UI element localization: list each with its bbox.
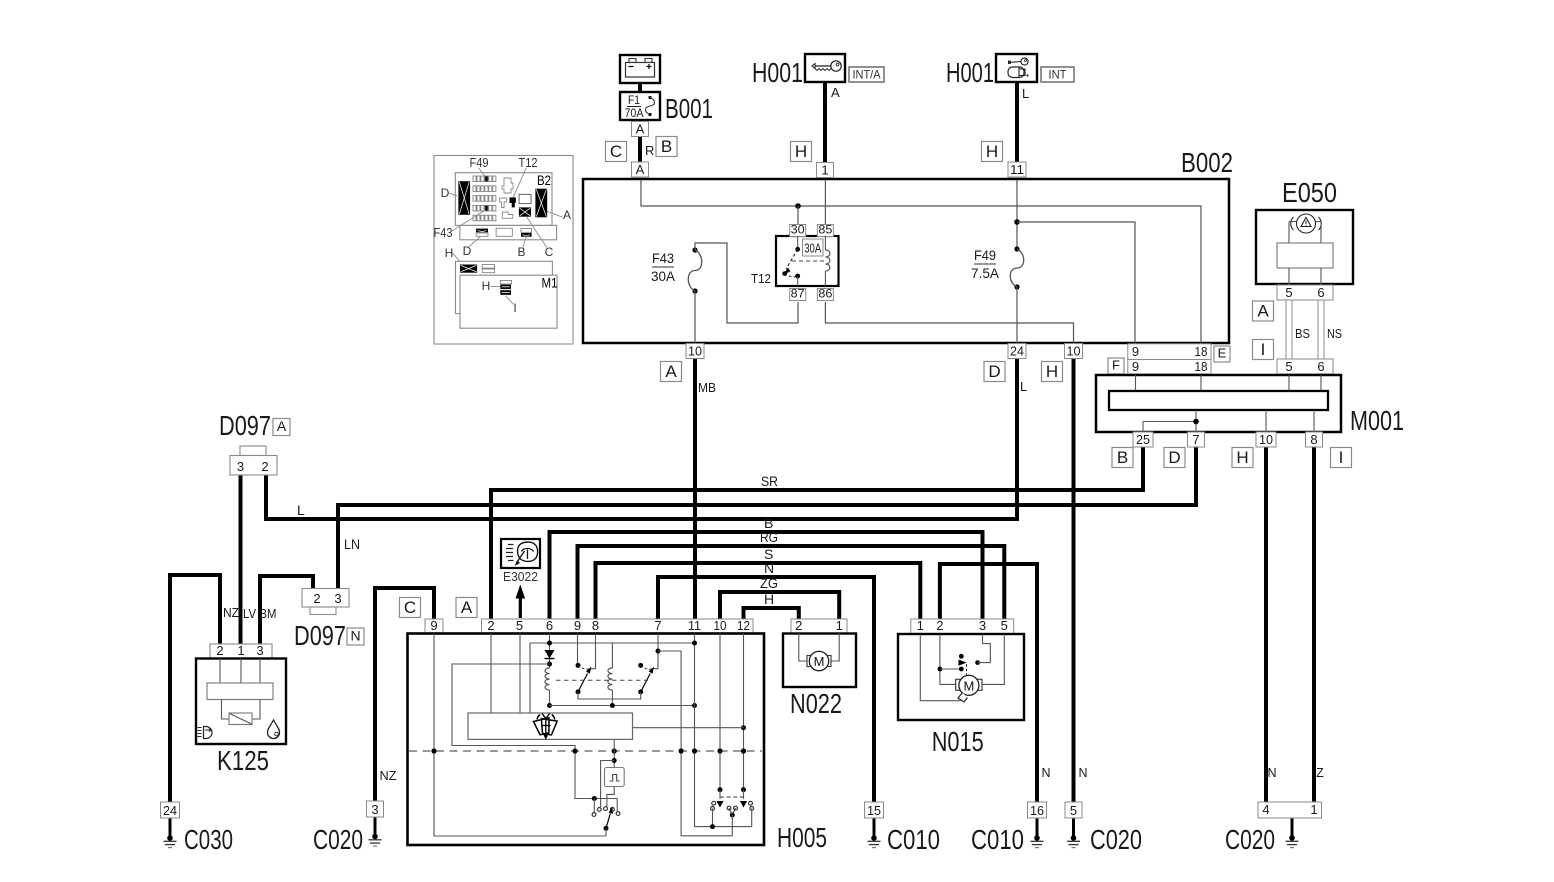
label box A <box>1253 301 1274 321</box>
svg-text:N015: N015 <box>932 726 984 757</box>
svg-text:7: 7 <box>654 618 661 633</box>
svg-text:2: 2 <box>313 591 320 606</box>
svg-text:B001: B001 <box>665 93 713 124</box>
svg-text:86: 86 <box>818 286 832 300</box>
hazard switch E050 <box>1256 210 1353 285</box>
svg-text:A: A <box>636 162 645 177</box>
wire S, H005 pin 8 to N015 pin 1 <box>596 563 921 620</box>
svg-text:85: 85 <box>818 222 832 236</box>
pin 16 of C010 <box>1028 802 1047 818</box>
svg-text:A: A <box>277 418 287 434</box>
svg-text:6: 6 <box>1317 285 1324 300</box>
wire L, B002 pin 24 to D097/A pin 2 <box>266 358 1017 519</box>
svg-text:1: 1 <box>836 618 843 633</box>
svg-text:N022: N022 <box>790 688 842 719</box>
wire B002 pin 11 to fuse F49 <box>1016 180 1018 249</box>
svg-text:F43: F43 <box>652 250 674 266</box>
svg-text:A: A <box>461 598 473 617</box>
svg-text:1: 1 <box>1310 802 1317 817</box>
wire NZ, C020 pin 3 to H005 pin 9 <box>375 588 434 803</box>
wire R, B001 pin A to B002 pin A <box>638 135 642 163</box>
wire MB, B002 pin 10 to H005 pin 11 <box>693 358 697 620</box>
svg-text:A: A <box>1257 302 1269 321</box>
pins 9/18 connector row to M001 <box>1128 359 1211 374</box>
svg-text:H: H <box>986 142 998 161</box>
svg-text:LV: LV <box>243 607 257 621</box>
svg-text:B2: B2 <box>537 173 551 188</box>
svg-text:H001: H001 <box>752 57 803 88</box>
pin 10 of M001 <box>1256 432 1276 447</box>
svg-text:M: M <box>814 654 825 669</box>
svg-text:D097: D097 <box>219 410 271 441</box>
svg-text:H001: H001 <box>946 57 994 88</box>
wire F49 to B002 pin 24 <box>1016 287 1018 344</box>
ground C030 <box>164 835 177 847</box>
svg-text:F49: F49 <box>974 247 996 263</box>
wire relay T12 pin 86 to B002 pin 10 right <box>825 302 1073 344</box>
pin 10 of B002 <box>686 343 704 358</box>
rear wiper motor N015 <box>898 634 1024 720</box>
svg-text:L: L <box>1022 86 1029 101</box>
wire F43 to relay T12 pin 87 <box>695 243 798 323</box>
svg-text:H: H <box>764 591 774 607</box>
svg-text:25: 25 <box>1136 432 1150 447</box>
svg-text:A: A <box>831 85 840 100</box>
svg-text:C: C <box>610 142 622 161</box>
icon headlamp levelling <box>198 727 213 739</box>
wire N, H005 pin 7 to C010 pin 15 <box>658 577 874 803</box>
svg-text:18: 18 <box>1195 344 1208 359</box>
svg-text:5: 5 <box>1285 285 1292 300</box>
pins 9/18 of B002 <box>1128 344 1211 360</box>
svg-text:B: B <box>517 245 525 259</box>
svg-text:C020: C020 <box>1090 824 1142 855</box>
svg-text:2: 2 <box>936 618 943 633</box>
svg-text:L: L <box>297 502 305 518</box>
svg-text:C020: C020 <box>1225 824 1275 855</box>
svg-text:1: 1 <box>237 643 244 658</box>
fuse F49 7.5A <box>1010 246 1024 289</box>
svg-text:30: 30 <box>791 222 805 236</box>
svg-text:K125: K125 <box>217 745 269 776</box>
wire stub to ground C030 <box>169 817 172 838</box>
svg-text:18: 18 <box>1195 359 1208 374</box>
svg-text:M1: M1 <box>542 276 558 291</box>
pin 5 of C020 <box>1065 802 1082 818</box>
pin row of H005: 2 5 6 9 8 7 11 10 12 <box>482 618 754 634</box>
arrow from H005 pin 5 to E3022 <box>516 585 526 619</box>
svg-text:T12: T12 <box>519 156 538 170</box>
wire stub to ground C010 <box>1036 817 1039 838</box>
svg-text:C020: C020 <box>313 824 363 855</box>
svg-text:H: H <box>795 142 807 161</box>
svg-text:C: C <box>404 598 416 617</box>
svg-text:B: B <box>661 137 672 156</box>
node junction F49 branch <box>1014 219 1020 225</box>
ground C020 <box>369 834 382 846</box>
svg-text:A: A <box>665 362 677 381</box>
svg-text:N: N <box>764 560 774 576</box>
wire A, H001 to B002 pin 1 <box>823 82 827 164</box>
svg-text:8: 8 <box>592 618 599 633</box>
svg-text:9: 9 <box>1132 359 1139 374</box>
pin 3 of C020 <box>367 801 384 817</box>
label box B <box>1112 448 1133 468</box>
svg-text:10: 10 <box>688 343 702 358</box>
svg-text:2: 2 <box>795 618 802 633</box>
wire N, M001 pin 10 to C020 pin 4 <box>1264 446 1268 802</box>
wire N, N015 pin 2 to C010 pin 16 <box>940 564 1037 803</box>
svg-text:6: 6 <box>1317 359 1324 374</box>
svg-text:10: 10 <box>1259 432 1273 447</box>
wire to relay T12 pin 30 <box>797 206 799 226</box>
svg-text:3: 3 <box>256 643 263 658</box>
svg-text:D097: D097 <box>294 620 346 651</box>
svg-text:3: 3 <box>237 459 244 474</box>
ground C020 <box>1286 835 1299 847</box>
label box F <box>1108 358 1124 375</box>
svg-text:24: 24 <box>1010 343 1024 358</box>
svg-text:4: 4 <box>1262 802 1269 817</box>
svg-text:11: 11 <box>688 618 701 633</box>
wire B002 pin 1 to relay T12 pin 85 <box>824 180 826 226</box>
svg-text:H: H <box>1046 362 1058 381</box>
svg-text:N: N <box>1078 766 1087 780</box>
fusebox B002 outline <box>583 179 1229 343</box>
label box E <box>1214 346 1230 363</box>
pins 4/1 of C020 connector <box>1258 802 1322 818</box>
svg-text:N: N <box>1267 766 1276 780</box>
wire B, H005 pin 6 to N015 pin 3 <box>550 532 983 620</box>
wire stub to ground C020 <box>1072 817 1075 838</box>
label box B <box>656 137 677 157</box>
label box H <box>982 142 1003 162</box>
svg-text:M: M <box>963 678 974 693</box>
wire H, H005 pin 12 to N022 pin 2 <box>744 608 799 620</box>
wire BS, E050 pin 5 to M001 pin 5 (twin-line) <box>1286 300 1292 359</box>
svg-text:3: 3 <box>979 618 986 633</box>
ignition switch H001 key symbol <box>805 54 845 82</box>
label box INT/A <box>849 67 884 82</box>
svg-text:9: 9 <box>1132 344 1139 359</box>
svg-text:NZ: NZ <box>380 769 397 783</box>
svg-text:H: H <box>1236 448 1248 467</box>
ignition switch H001 with key-in-lock symbol <box>996 54 1037 82</box>
svg-text:15: 15 <box>867 803 881 818</box>
icon windscreen wipers <box>533 714 557 740</box>
fuse box B001 with fuse F1 70A <box>620 92 660 120</box>
svg-text:5: 5 <box>1070 803 1077 818</box>
svg-text:12: 12 <box>737 618 750 633</box>
svg-text:D: D <box>441 186 450 200</box>
wire NS, E050 pin 6 to M001 pin 6 (twin-line) <box>1318 300 1324 359</box>
wire L, H001 to B002 pin 11 <box>1015 82 1019 164</box>
wiper switch unit H005 <box>408 634 765 846</box>
icon/component E3022 windscreen washer <box>501 539 540 568</box>
svg-text:L: L <box>1020 379 1027 394</box>
node junction A-line / relay 30 <box>795 203 801 209</box>
svg-text:6: 6 <box>546 618 553 633</box>
svg-text:16: 16 <box>1030 803 1044 818</box>
wire stub to ground C020 <box>374 817 377 836</box>
control unit K125 <box>196 659 286 745</box>
svg-text:ZG: ZG <box>760 575 778 591</box>
svg-text:9: 9 <box>574 618 581 633</box>
label box I <box>1331 448 1352 468</box>
label box A <box>661 362 682 382</box>
battery <box>620 55 660 83</box>
svg-text:5: 5 <box>1285 359 1292 374</box>
svg-text:MB: MB <box>698 380 716 395</box>
label box D <box>984 362 1005 382</box>
label box I <box>1253 340 1274 360</box>
svg-text:2: 2 <box>216 643 223 658</box>
svg-text:8: 8 <box>1310 432 1317 447</box>
svg-text:F: F <box>1112 358 1120 373</box>
svg-text:E3022: E3022 <box>503 570 538 584</box>
svg-text:3: 3 <box>334 591 341 606</box>
svg-text:H: H <box>482 279 491 293</box>
label box N <box>347 628 364 646</box>
wire stub to ground C010 <box>873 817 876 838</box>
svg-text:C010: C010 <box>887 824 940 855</box>
pins 5/6 of E050 <box>1277 285 1333 300</box>
svg-text:INT: INT <box>1049 68 1068 82</box>
pin 10 of B002 (right) <box>1065 343 1083 358</box>
svg-text:INT/A: INT/A <box>853 68 881 82</box>
svg-text:D: D <box>463 244 472 258</box>
label box C <box>606 142 627 162</box>
svg-text:N: N <box>350 628 360 644</box>
wire ZG, H005 pin 10 to N022 pin 1 <box>720 592 839 620</box>
svg-text:10: 10 <box>1067 343 1081 358</box>
svg-text:T12: T12 <box>751 271 771 286</box>
wire BM, K125 pin 3 to D097/N pin 2 <box>260 576 313 644</box>
wire B002 internal from pin A to pin 18 <box>641 180 1201 344</box>
pins 2/1 of N022 <box>791 618 847 634</box>
svg-text:30A: 30A <box>651 268 676 284</box>
label box A <box>456 598 477 618</box>
label box INT <box>1041 67 1074 82</box>
svg-text:M001: M001 <box>1350 405 1404 436</box>
ground C020 <box>1067 835 1080 847</box>
svg-text:BM: BM <box>260 607 277 621</box>
wire Z, M001 pin 8 to C020 pin 1 <box>1312 446 1316 802</box>
pin A of B001 <box>632 121 649 136</box>
svg-text:2: 2 <box>261 459 268 474</box>
svg-text:A: A <box>636 121 645 136</box>
pin 8 of M001 <box>1306 432 1323 447</box>
svg-text:B002: B002 <box>1181 147 1233 178</box>
svg-text:5: 5 <box>1001 618 1008 633</box>
svg-text:RG: RG <box>760 529 778 545</box>
svg-text:24: 24 <box>163 803 177 818</box>
svg-text:E050: E050 <box>1282 177 1337 208</box>
pin 11 into B002 <box>1008 162 1026 177</box>
pins 2/1/3 of K125 <box>210 643 272 659</box>
svg-text:NS: NS <box>1327 326 1342 341</box>
svg-text:NZ: NZ <box>223 606 239 620</box>
svg-text:F1: F1 <box>628 93 640 107</box>
svg-text:1: 1 <box>917 618 924 633</box>
svg-text:C: C <box>545 245 554 259</box>
svg-text:E: E <box>1218 346 1227 361</box>
connector D097/A <box>230 446 277 475</box>
svg-text:Z: Z <box>1316 766 1324 780</box>
wire LV, D097/A pin 3 to K125 pin 1 <box>239 475 243 644</box>
wire F43 to B002 pin 10 <box>694 291 696 344</box>
relay T12 <box>776 222 839 300</box>
pin 1 of B002 <box>817 162 834 177</box>
pin 15 of C010 <box>865 802 884 818</box>
wire N, B002 pin 10 to C020 pin 5 <box>1072 358 1076 803</box>
connector D097/N <box>302 589 349 615</box>
pin 24 of C030 <box>161 802 180 818</box>
svg-text:70A: 70A <box>625 106 644 120</box>
pin 9 of H005 <box>425 618 443 634</box>
icon fluid drop <box>268 720 280 739</box>
pin 24 of B002 <box>1008 343 1026 358</box>
svg-text:H005: H005 <box>777 822 827 853</box>
body computer M001 <box>1096 375 1341 432</box>
pins 1/2/3/5 of N015 <box>911 618 1014 634</box>
inset: fusebox location drawing B2/M1 <box>434 156 574 345</box>
pins 5/6 into M001 <box>1277 359 1333 374</box>
washer pump N022 <box>783 634 856 688</box>
wire LN, M001 pin 7 to D097/N pin 3 <box>338 446 1196 589</box>
svg-text:BS: BS <box>1295 326 1310 341</box>
svg-text:SR: SR <box>761 473 778 489</box>
svg-text:I: I <box>1339 448 1344 467</box>
wire F49 branch to B002 pin 9 <box>1017 222 1135 344</box>
pin 7 of M001 <box>1188 432 1205 447</box>
svg-text:30A: 30A <box>804 241 821 255</box>
svg-text:D: D <box>1168 448 1180 467</box>
svg-text:3: 3 <box>371 802 378 817</box>
svg-text:9: 9 <box>430 618 437 633</box>
svg-text:I: I <box>1261 340 1266 359</box>
svg-text:87: 87 <box>791 286 805 300</box>
svg-text:R: R <box>645 143 654 158</box>
svg-text:7: 7 <box>1192 432 1199 447</box>
svg-text:C010: C010 <box>971 824 1024 855</box>
svg-text:F43: F43 <box>434 226 453 240</box>
label box H <box>791 142 812 162</box>
wire battery to B001 <box>638 81 642 93</box>
wire SR, M001 pin 25 to H005 pin 2 <box>491 446 1143 620</box>
svg-text:LN: LN <box>344 536 360 552</box>
label box C <box>400 598 421 618</box>
svg-text:A: A <box>563 208 571 222</box>
pin A of B002 <box>632 162 649 177</box>
ground C010 <box>1031 835 1044 847</box>
svg-text:10: 10 <box>714 618 727 633</box>
svg-text:7.5A: 7.5A <box>971 265 1000 281</box>
fuse F43 30A <box>688 247 702 293</box>
wire NZ, K125 pin 2 to C030 pin 24 <box>170 575 220 803</box>
svg-text:1: 1 <box>821 162 828 177</box>
label box D <box>1164 448 1185 468</box>
svg-text:D: D <box>988 362 1000 381</box>
svg-text:2: 2 <box>487 618 494 633</box>
wire stub to ground C020 <box>1291 818 1294 838</box>
pin 11 of B002 <box>1008 162 1026 177</box>
svg-text:F49: F49 <box>470 156 489 170</box>
label box A <box>273 418 290 436</box>
svg-text:B: B <box>1117 448 1128 467</box>
svg-text:I: I <box>513 301 516 315</box>
svg-text:5: 5 <box>516 618 523 633</box>
wire RG, H005 pin 9 to N015 pin 5 <box>578 546 1005 620</box>
svg-text:N: N <box>1041 766 1050 780</box>
pin 1 into B002 <box>817 162 834 177</box>
label box H <box>1232 448 1253 468</box>
label box H <box>1042 362 1063 382</box>
svg-text:C030: C030 <box>184 824 233 855</box>
ground C010 <box>868 835 881 847</box>
svg-text:11: 11 <box>1010 162 1024 177</box>
pin 25 of M001 <box>1133 432 1153 447</box>
